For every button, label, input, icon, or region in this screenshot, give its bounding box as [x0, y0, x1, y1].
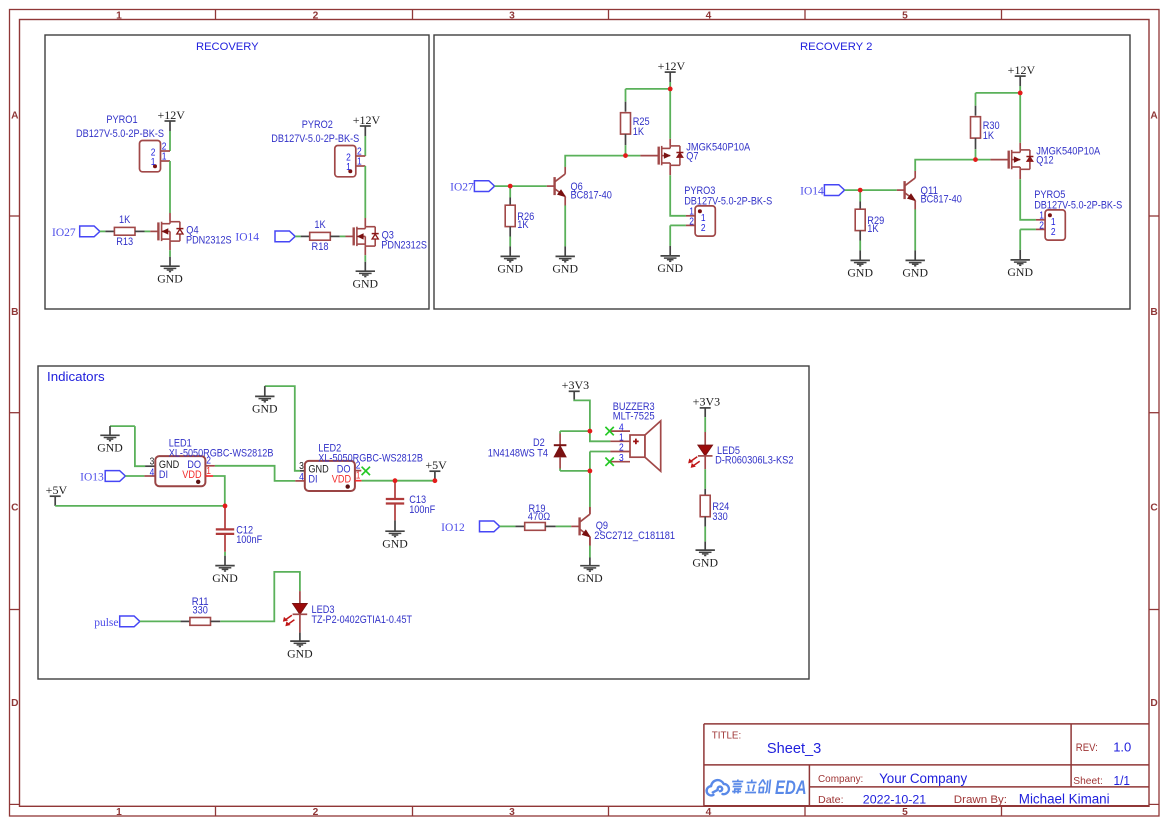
svg-text:GND: GND	[552, 262, 578, 276]
svg-text:Q7: Q7	[686, 151, 698, 163]
svg-text:TZ-P2-0402GTIA1-0.45T: TZ-P2-0402GTIA1-0.45T	[312, 614, 413, 626]
svg-text:Company:: Company:	[818, 773, 863, 785]
svg-text:A: A	[11, 110, 19, 121]
svg-text:330: 330	[712, 511, 727, 523]
svg-text:RECOVERY 2: RECOVERY 2	[800, 41, 872, 53]
svg-text:B: B	[1150, 307, 1157, 318]
svg-text:+5V: +5V	[46, 483, 68, 497]
svg-text:4: 4	[150, 467, 155, 478]
svg-text:REV:: REV:	[1076, 742, 1098, 754]
svg-text:IO13: IO13	[80, 471, 104, 483]
svg-text:B: B	[11, 307, 18, 318]
svg-text:C: C	[11, 502, 19, 513]
svg-text:5: 5	[902, 807, 908, 818]
svg-text:VDD: VDD	[182, 469, 202, 481]
svg-text:2: 2	[313, 10, 319, 21]
svg-text:1K: 1K	[119, 214, 130, 226]
svg-text:IO27: IO27	[52, 227, 76, 239]
svg-text:3: 3	[509, 10, 515, 21]
svg-text:4: 4	[706, 10, 712, 21]
svg-text:1: 1	[346, 162, 351, 173]
svg-text:D: D	[11, 698, 18, 709]
svg-text:DB127V-5.0-2P-BK-S: DB127V-5.0-2P-BK-S	[271, 133, 359, 145]
svg-text:GND: GND	[497, 262, 523, 276]
svg-text:GND: GND	[353, 276, 379, 290]
svg-text:GND: GND	[657, 261, 683, 275]
svg-text:1: 1	[162, 152, 167, 163]
svg-text:C: C	[1150, 502, 1158, 513]
svg-text:Your Company: Your Company	[879, 771, 967, 786]
svg-text:5: 5	[902, 10, 908, 21]
svg-text:3: 3	[299, 461, 304, 472]
svg-text:IO12: IO12	[441, 522, 465, 534]
svg-text:R13: R13	[116, 236, 133, 248]
svg-text:+3V3: +3V3	[693, 395, 720, 409]
svg-text:+12V: +12V	[157, 108, 185, 122]
svg-text:Indicators: Indicators	[47, 369, 105, 384]
svg-text:IO27: IO27	[450, 182, 474, 194]
svg-text:1: 1	[116, 807, 122, 818]
svg-text:2022-10-21: 2022-10-21	[863, 792, 926, 806]
svg-text:GND: GND	[287, 646, 313, 660]
svg-text:D: D	[1150, 698, 1157, 709]
svg-text:IO14: IO14	[800, 186, 824, 198]
svg-text:VDD: VDD	[332, 474, 352, 486]
svg-text:100nF: 100nF	[409, 504, 436, 516]
svg-text:1K: 1K	[983, 130, 994, 142]
svg-text:2: 2	[1039, 221, 1044, 232]
svg-text:1K: 1K	[314, 219, 325, 231]
svg-text:470Ω: 470Ω	[528, 511, 550, 523]
svg-text:Drawn By:: Drawn By:	[954, 794, 1007, 806]
svg-text:A: A	[1150, 110, 1158, 121]
svg-text:1K: 1K	[517, 219, 528, 231]
svg-text:PYRO2: PYRO2	[302, 119, 333, 131]
svg-text:DB127V-5.0-2P-BK-S: DB127V-5.0-2P-BK-S	[1034, 199, 1122, 211]
svg-text:pulse: pulse	[94, 617, 118, 629]
svg-text:DB127V-5.0-2P-BK-S: DB127V-5.0-2P-BK-S	[76, 128, 164, 140]
svg-text:2: 2	[162, 141, 167, 152]
svg-text:DI: DI	[308, 474, 317, 486]
svg-text:GND: GND	[902, 266, 928, 280]
svg-text:MLT-7525: MLT-7525	[613, 410, 655, 422]
svg-text:GND: GND	[212, 571, 238, 585]
svg-text:BC817-40: BC817-40	[921, 194, 962, 206]
svg-text:BC817-40: BC817-40	[571, 190, 612, 202]
svg-text:PDN2312S: PDN2312S	[186, 235, 232, 247]
svg-text:R18: R18	[312, 241, 329, 253]
svg-text:1/1: 1/1	[1114, 774, 1131, 788]
svg-text:2: 2	[701, 223, 706, 234]
svg-text:DI: DI	[159, 469, 168, 481]
svg-text:2: 2	[313, 807, 319, 818]
svg-text:1.0: 1.0	[1113, 740, 1131, 755]
svg-text:GND: GND	[157, 271, 183, 285]
svg-text:GND: GND	[1007, 265, 1033, 279]
svg-text:GND: GND	[577, 571, 603, 585]
svg-text:3: 3	[150, 456, 155, 467]
svg-text:+12V: +12V	[1008, 63, 1036, 77]
svg-text:3: 3	[619, 453, 624, 464]
svg-text:Date:: Date:	[818, 794, 844, 806]
svg-text:2: 2	[689, 217, 694, 228]
svg-text:100nF: 100nF	[236, 534, 263, 546]
svg-text:3: 3	[509, 807, 515, 818]
svg-text:PYRO1: PYRO1	[106, 114, 137, 126]
svg-text:1N4148WS T4: 1N4148WS T4	[488, 448, 548, 460]
svg-text:Sheet:: Sheet:	[1073, 775, 1103, 787]
svg-text:1K: 1K	[867, 223, 878, 235]
svg-text:2SC2712_C181181: 2SC2712_C181181	[594, 530, 675, 542]
svg-text:GND: GND	[692, 555, 718, 569]
svg-text:PDN2312S: PDN2312S	[381, 240, 427, 252]
svg-text:+12V: +12V	[658, 59, 686, 73]
svg-text:TITLE:: TITLE:	[712, 731, 741, 742]
svg-text:RECOVERY: RECOVERY	[196, 41, 259, 53]
svg-text:D-R060306L3-KS2: D-R060306L3-KS2	[715, 454, 793, 466]
svg-text:GND: GND	[97, 441, 123, 455]
svg-text:EDA: EDA	[775, 778, 807, 799]
svg-text:+12V: +12V	[353, 113, 381, 127]
svg-text:+5V: +5V	[425, 458, 447, 472]
svg-text:4: 4	[299, 472, 304, 483]
svg-text:2: 2	[357, 146, 362, 157]
svg-text:4: 4	[706, 807, 712, 818]
svg-text:1K: 1K	[633, 126, 644, 138]
svg-text:GND: GND	[847, 266, 873, 280]
svg-text:GND: GND	[252, 402, 278, 416]
svg-text:XL-5050RGBC-WS2812B: XL-5050RGBC-WS2812B	[318, 452, 423, 464]
svg-text:1: 1	[116, 10, 122, 21]
svg-text:2: 2	[1051, 227, 1056, 238]
svg-text:Michael Kimani: Michael Kimani	[1019, 791, 1110, 806]
svg-text:+3V3: +3V3	[562, 378, 589, 392]
svg-text:DB127V-5.0-2P-BK-S: DB127V-5.0-2P-BK-S	[684, 195, 772, 207]
svg-text:Q12: Q12	[1036, 155, 1053, 167]
svg-text:1: 1	[151, 157, 156, 168]
svg-text:330: 330	[193, 605, 208, 617]
svg-text:1: 1	[357, 157, 362, 168]
svg-text:IO14: IO14	[235, 231, 259, 243]
svg-text:GND: GND	[382, 536, 408, 550]
svg-text:XL-5050RGBC-WS2812B: XL-5050RGBC-WS2812B	[169, 448, 274, 460]
svg-text:Sheet_3: Sheet_3	[767, 741, 821, 757]
